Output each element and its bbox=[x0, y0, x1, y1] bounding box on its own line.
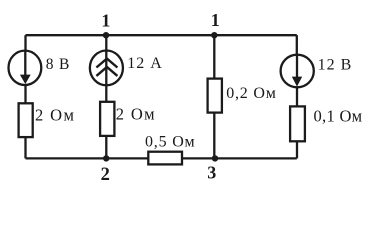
svg-text:0,5 Ом: 0,5 Ом bbox=[145, 133, 195, 150]
svg-text:2 Ом: 2 Ом bbox=[35, 105, 75, 124]
svg-text:0,1 Ом: 0,1 Ом bbox=[314, 107, 363, 126]
svg-text:1: 1 bbox=[101, 11, 110, 31]
svg-text:3: 3 bbox=[207, 163, 216, 183]
svg-text:1: 1 bbox=[211, 10, 220, 30]
svg-text:8 В: 8 В bbox=[46, 56, 70, 73]
svg-text:12 А: 12 А bbox=[127, 55, 163, 72]
svg-text:0,2 Ом: 0,2 Ом bbox=[226, 85, 276, 102]
svg-text:2: 2 bbox=[101, 165, 110, 185]
svg-text:2 Ом: 2 Ом bbox=[116, 105, 156, 124]
svg-text:12 В: 12 В bbox=[318, 56, 353, 73]
